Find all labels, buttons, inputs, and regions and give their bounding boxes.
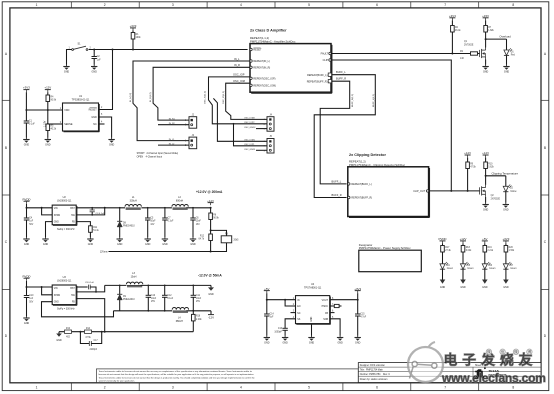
svg-text:EN: EN bbox=[297, 306, 301, 308]
svg-text:RESET: RESET bbox=[253, 49, 262, 52]
svg-text:1uF: 1uF bbox=[29, 221, 34, 223]
svg-text:1uF: 1uF bbox=[29, 298, 34, 300]
svg-text:GND: GND bbox=[482, 286, 488, 289]
ground (C5) bbox=[145, 237, 151, 246]
power -12V output bbox=[208, 311, 214, 320]
svg-text:CLIP_OUT: CLIP_OUT bbox=[413, 190, 425, 193]
wire OSC to J5 branch bbox=[234, 124, 268, 146]
node reset/pull-up bbox=[132, 49, 134, 51]
svg-text:BST: BST bbox=[70, 208, 75, 210]
svg-text:2: 2 bbox=[104, 3, 106, 7]
power +12V (LED column 2) bbox=[460, 237, 467, 244]
node divider/VDD bbox=[47, 109, 49, 111]
ground (comp left) bbox=[56, 332, 62, 342]
ground (LED D2) bbox=[503, 203, 509, 212]
svg-text:90.9k: 90.9k bbox=[51, 100, 57, 102]
svg-text:Clipping Temperature: Clipping Temperature bbox=[492, 171, 519, 175]
svg-text:GND: GND bbox=[56, 339, 62, 342]
ground (C16) bbox=[282, 336, 288, 345]
svg-text:0.1uF: 0.1uF bbox=[29, 124, 35, 126]
svg-text:4: 4 bbox=[240, 386, 242, 390]
svg-text:R13: R13 bbox=[66, 328, 71, 330]
svg-text:REPEAT(BUFF_L): REPEAT(BUFF_L) bbox=[351, 183, 371, 186]
resistor R5 40.2k bbox=[46, 124, 57, 138]
svg-text:Green: Green bbox=[447, 267, 454, 270]
power +3V3 rail (supervisor VDD) bbox=[23, 86, 30, 93]
resistor R10 5.62k bbox=[484, 158, 495, 176]
svg-text:SwFq = 330 kHz: SwFq = 330 kHz bbox=[57, 228, 75, 231]
svg-text:0.1uF: 0.1uF bbox=[168, 221, 174, 223]
power +5V (LDO input) bbox=[264, 287, 270, 293]
wire comp run bbox=[59, 331, 193, 333]
wire OSC second branch bbox=[213, 98, 267, 141]
svg-text:LM26003-Q1: LM26003-Q1 bbox=[57, 280, 72, 283]
svg-text:2200pF: 2200pF bbox=[90, 349, 98, 351]
svg-text:BUFF_L: BUFF_L bbox=[332, 180, 342, 184]
svg-text:IN_L(1,2): IN_L(1,2) bbox=[130, 93, 132, 102]
svg-text:5: 5 bbox=[308, 3, 310, 7]
resistor R7 1.82k bbox=[484, 20, 495, 39]
wire vin to U3 bbox=[27, 286, 53, 288]
svg-text:OSC_IO(1,2): OSC_IO(1,2) bbox=[205, 91, 207, 104]
ground (C1) bbox=[23, 138, 29, 147]
svg-text:PMP11754MainC - Amplifier.SchD: PMP11754MainC - Amplifier.SchDoc bbox=[250, 39, 296, 43]
svg-text:2x Clipping Detector: 2x Clipping Detector bbox=[349, 153, 386, 157]
svg-text:5: 5 bbox=[308, 386, 310, 390]
svg-text:0.1uF: 0.1uF bbox=[167, 298, 173, 300]
node FAULT/pull-up bbox=[451, 53, 453, 55]
svg-text:6: 6 bbox=[376, 386, 378, 390]
svg-text:4.7uF: 4.7uF bbox=[360, 317, 366, 319]
power +5V (LED column 3) bbox=[482, 237, 488, 244]
svg-text:OSC_GND1: OSC_GND1 bbox=[244, 149, 256, 151]
svg-text:BUFF_R(1,2): BUFF_R(1,2) bbox=[352, 94, 354, 107]
svg-text:47.5k: 47.5k bbox=[470, 166, 476, 168]
op-amp U2 LM26003-Q1 buck regulator bbox=[52, 196, 77, 231]
svg-text:+12V: +12V bbox=[207, 199, 214, 203]
wire divider mid bbox=[47, 110, 49, 124]
resistor R19 2.21k bbox=[483, 244, 494, 264]
resistor R14 47.5k (comp) bbox=[85, 328, 92, 339]
svg-text:7: 7 bbox=[444, 386, 446, 390]
capacitor C2 1uF bbox=[92, 50, 102, 65]
svg-text:4: 4 bbox=[240, 3, 242, 7]
op-amp U5 2x Class D Amplifier sheet symbol bbox=[250, 29, 332, 94]
node CLIP junction bbox=[450, 190, 452, 192]
svg-text:10uH: 10uH bbox=[131, 275, 137, 278]
connector J3 (2-pin input jumper, IN_L) bbox=[185, 135, 197, 149]
resistor R16 2.49k (fb top) bbox=[192, 311, 203, 332]
svg-text:REPEAT(OSC_IOP): REPEAT(OSC_IOP) bbox=[253, 78, 275, 81]
wire U3 SW bbox=[76, 285, 105, 292]
op-amp U6 2x Clipping Detector sheet symbol bbox=[348, 153, 430, 217]
svg-text:Drawn by: station unknown: Drawn by: station unknown bbox=[360, 378, 388, 381]
svg-text:微: 微 bbox=[487, 349, 491, 354]
wire OSC_IOM bbox=[226, 83, 267, 119]
svg-text:R14: R14 bbox=[86, 328, 91, 330]
wire U3 FB bbox=[76, 299, 105, 332]
LED D2 Yellow bbox=[503, 176, 517, 203]
LED D1 Red bbox=[504, 39, 516, 64]
ground (C15) bbox=[355, 336, 361, 345]
wire PVDD rail 2 bbox=[26, 281, 28, 296]
capacitor C14 1uF bbox=[264, 314, 274, 336]
wire U1 NC stub bbox=[99, 123, 105, 125]
resistor R6 90.9k (divider top) bbox=[209, 208, 220, 234]
ground (switch) bbox=[63, 65, 69, 74]
svg-text:+12.0V @ 200mA: +12.0V @ 200mA bbox=[196, 190, 223, 194]
power +12V (clip pull-up) bbox=[464, 151, 471, 158]
svg-text:IN: IN bbox=[297, 300, 300, 302]
LED D6 Green bbox=[482, 262, 496, 280]
wire switch left leg bbox=[67, 50, 72, 65]
ground (Q2) bbox=[482, 203, 488, 212]
resistor R20 1.50k bbox=[504, 244, 515, 264]
wire U2 SW bbox=[76, 208, 105, 215]
power +3V3 (LED column 4) bbox=[502, 237, 509, 244]
svg-text:BUFF_L(1,2): BUFF_L(1,2) bbox=[373, 94, 375, 107]
inductor L4 680nH bbox=[172, 308, 188, 323]
svg-text:NC: NC bbox=[93, 123, 97, 126]
svg-text:+3V3: +3V3 bbox=[23, 86, 30, 90]
svg-text:10uF: 10uF bbox=[151, 298, 157, 300]
svg-text:1: 1 bbox=[36, 386, 38, 390]
svg-text:VOUT: VOUT bbox=[322, 300, 329, 302]
wire vin to U2 bbox=[27, 207, 53, 209]
wire U4 PSNC stub bbox=[330, 304, 342, 307]
wire U2 EN bbox=[42, 208, 53, 215]
svg-text:FB: FB bbox=[325, 313, 328, 315]
svg-text:1uF: 1uF bbox=[97, 59, 102, 61]
wire BUFF_R bbox=[320, 81, 350, 184]
wire buck2 top rail bbox=[105, 284, 127, 286]
svg-text:1.50k: 1.50k bbox=[509, 250, 515, 252]
wire U3 BST bbox=[76, 286, 87, 288]
svg-text:SHDN: SHDN bbox=[54, 215, 61, 217]
svg-text:2N7002E: 2N7002E bbox=[491, 198, 501, 200]
wire Q1 source bbox=[485, 60, 487, 65]
resistor R1 100k bbox=[131, 31, 141, 50]
svg-text:Green: Green bbox=[510, 267, 517, 270]
svg-text:8: 8 bbox=[512, 386, 514, 390]
svg-text:OPEN 4-Channel Input: OPEN 4-Channel Input bbox=[137, 155, 163, 158]
svg-text:Designer: DCS unknown: Designer: DCS unknown bbox=[360, 364, 386, 367]
wire PVDD rail bbox=[26, 204, 28, 218]
svg-text:OSC_IO(1,2): OSC_IO(1,2) bbox=[223, 91, 225, 104]
inductor L2 600nH bbox=[172, 196, 188, 209]
svg-text:BUFF_R: BUFF_R bbox=[336, 77, 346, 81]
node Designator note bbox=[359, 243, 422, 272]
svg-text:REPEAT(IN_L): REPEAT(IN_L) bbox=[253, 60, 270, 63]
wire CLIP bbox=[331, 60, 451, 191]
svg-text:IN_L1: IN_L1 bbox=[169, 139, 175, 141]
svg-text:VIN: VIN bbox=[54, 288, 58, 290]
node clip pull-up bbox=[467, 190, 469, 192]
svg-text:+5V: +5V bbox=[264, 287, 269, 291]
resistor R17 27.4k bbox=[441, 244, 452, 264]
wire VDD net to divider and U1 bbox=[26, 109, 62, 111]
ground (C2) bbox=[91, 65, 97, 74]
node SW rail bbox=[104, 207, 106, 209]
wire drain node to LED bbox=[486, 38, 507, 40]
svg-text:Texas Instruments and/or its l: Texas Instruments and/or its licensors d… bbox=[99, 376, 256, 379]
svg-text:PMEG4010: PMEG4010 bbox=[123, 226, 135, 228]
svg-text:2.49k: 2.49k bbox=[196, 319, 202, 321]
wire drain bbox=[485, 39, 487, 47]
switch S1 bbox=[69, 43, 92, 51]
wire IN_R bbox=[153, 67, 250, 120]
capacitor C13 10uF 25V bbox=[146, 285, 157, 310]
wire LDO input rail bbox=[266, 293, 268, 314]
svg-text:1uF: 1uF bbox=[270, 317, 275, 319]
capacitor C6 10uF 16V bbox=[190, 208, 201, 237]
capacitor C3 0.1uF (bootstrap) bbox=[90, 208, 106, 215]
ground (D8) bbox=[117, 237, 123, 246]
wire BUFF_L bbox=[314, 75, 375, 198]
svg-text:Overload: Overload bbox=[499, 35, 511, 39]
svg-text:IN_R1: IN_R1 bbox=[169, 118, 176, 120]
capacitor C4 1uF 50V bbox=[24, 218, 34, 237]
svg-text:2x Class D Amplifier: 2x Class D Amplifier bbox=[250, 29, 287, 33]
wire U2 GND pin bbox=[46, 222, 53, 237]
diode D8 PMEG4010 (catch) bbox=[117, 208, 135, 237]
svg-text:FAULT: FAULT bbox=[321, 53, 329, 56]
capacitor C16 1000pF (soft-start) bbox=[274, 328, 287, 335]
power PVDD (buck2 input) bbox=[22, 274, 30, 280]
svg-text:www.elecfans.com: www.elecfans.com bbox=[441, 371, 546, 385]
wire J5 pin3 stub bbox=[256, 149, 267, 151]
svg-text:PMEG4010: PMEG4010 bbox=[123, 299, 135, 301]
svg-text:64.7k: 64.7k bbox=[198, 238, 204, 240]
node comp junction bbox=[79, 331, 81, 333]
resistor R4 90.9k bbox=[46, 92, 57, 110]
svg-text:TPS3803-01-Q1: TPS3803-01-Q1 bbox=[72, 99, 90, 102]
node reset/C2 bbox=[93, 49, 95, 51]
wire U4 FB stub bbox=[330, 312, 335, 314]
svg-text:OSC_IOM: OSC_IOM bbox=[233, 79, 245, 83]
capacitor C10 1uF 50V bbox=[24, 295, 34, 316]
LED D4 Green bbox=[440, 262, 454, 280]
svg-text:25V: 25V bbox=[196, 301, 201, 303]
ground (C4) bbox=[23, 237, 29, 246]
svg-text:2N7002E: 2N7002E bbox=[464, 44, 474, 46]
svg-text:5.62k: 5.62k bbox=[488, 166, 494, 168]
svg-text:BUFF_R: BUFF_R bbox=[332, 193, 342, 197]
svg-text:20k5: 20k5 bbox=[234, 240, 240, 242]
wire buck2 bottom rail (-12V) bbox=[114, 310, 173, 312]
ground (U1) bbox=[108, 138, 114, 147]
svg-text:46.4k: 46.4k bbox=[455, 30, 461, 32]
svg-text:IN_L: IN_L bbox=[234, 57, 240, 61]
wire U4 VOUT bbox=[330, 299, 358, 301]
connector J4 (3-pin OSC) bbox=[267, 114, 274, 131]
connector J2 (2-pin input jumper, IN_R) bbox=[185, 114, 197, 128]
svg-text:SS: SS bbox=[297, 319, 301, 321]
svg-text:PSNC: PSNC bbox=[322, 306, 329, 308]
svg-text:CLIP: CLIP bbox=[323, 59, 329, 62]
svg-text:1000pF: 1000pF bbox=[274, 331, 282, 333]
capacitor C15 4.7uF bbox=[355, 314, 367, 336]
svg-text:GND: GND bbox=[460, 286, 466, 289]
wire reset net main run bbox=[89, 49, 248, 51]
node sense bbox=[210, 251, 212, 253]
svg-text:-12V: -12V bbox=[208, 316, 214, 320]
svg-text:BST: BST bbox=[70, 288, 75, 290]
wire U4 SS bbox=[285, 319, 295, 329]
svg-text:GND: GND bbox=[311, 316, 313, 321]
wire Q2 source bbox=[485, 197, 487, 203]
transistor Q2 2N7002 bbox=[480, 185, 501, 201]
svg-text:10uF: 10uF bbox=[196, 221, 202, 223]
resistor R11 51.1k (FB) bbox=[89, 226, 100, 237]
wire SENSE to U1 bbox=[48, 123, 63, 125]
svg-text:GND: GND bbox=[54, 222, 59, 224]
wire U1 RESET up to reset net bbox=[99, 50, 113, 110]
ground (C7) bbox=[162, 237, 168, 246]
ground (C6) bbox=[190, 237, 196, 246]
svg-text:40.2k: 40.2k bbox=[51, 129, 57, 131]
svg-text:90.9k: 90.9k bbox=[213, 217, 219, 219]
wire U3 EN bbox=[42, 287, 53, 295]
ground (LED D1) bbox=[503, 65, 509, 74]
svg-text:VDD: VDD bbox=[64, 109, 69, 112]
node reset/U1 branch bbox=[112, 49, 114, 51]
power +12V (divider top) bbox=[44, 86, 51, 93]
svg-text:OSC_IOM1: OSC_IOM1 bbox=[244, 140, 256, 142]
power +3V3 (reset pull-up) bbox=[130, 24, 137, 31]
svg-text:SNB: SNB bbox=[323, 319, 328, 321]
svg-text:PVDD: PVDD bbox=[22, 197, 30, 201]
svg-text:+12V: +12V bbox=[464, 151, 471, 155]
power PVDD (buck1 input) bbox=[22, 197, 30, 203]
node clip drain/LED bbox=[485, 175, 487, 177]
svg-text:Title: PMP11754 Main: Title: PMP11754 Main bbox=[360, 369, 384, 372]
svg-text:+3V3: +3V3 bbox=[130, 24, 137, 28]
svg-text:2: 2 bbox=[104, 386, 106, 390]
svg-text:GND: GND bbox=[91, 116, 97, 119]
svg-text:GND: GND bbox=[208, 293, 214, 296]
svg-text:+15V: +15V bbox=[482, 14, 489, 18]
wire IN_L bbox=[133, 61, 250, 141]
resistor R12 64.7k (divider bottom) bbox=[198, 234, 212, 252]
node VDD junction bbox=[25, 109, 27, 111]
op-amp U1 TPS3803-01-Q1 supervisor bbox=[60, 95, 103, 132]
wire U3 GND pin return bbox=[42, 302, 114, 317]
wire U4 GND pad bbox=[311, 324, 313, 336]
svg-text:12Vsns: 12Vsns bbox=[100, 252, 109, 254]
ground (buck2 rail end) bbox=[208, 285, 214, 296]
wire J2 pin2 stub bbox=[158, 124, 189, 126]
svg-text:LM26003-Q1: LM26003-Q1 bbox=[57, 200, 72, 203]
svg-text:100k: 100k bbox=[136, 37, 142, 39]
wire feedback sense run bbox=[109, 251, 211, 253]
node EN jog 2 bbox=[41, 286, 43, 288]
ground (D5) bbox=[460, 280, 466, 290]
op-amp U4 TPS7A8001-Q1 LDO bbox=[293, 283, 334, 324]
LED D7 Green bbox=[503, 262, 517, 280]
diode D9 PMEG4010 bbox=[117, 285, 135, 310]
svg-text:R20: R20 bbox=[509, 247, 514, 249]
svg-text:SENSE: SENSE bbox=[64, 123, 73, 126]
svg-text:680nH: 680nH bbox=[176, 320, 183, 323]
svg-text:RESET: RESET bbox=[89, 109, 98, 112]
svg-text:Yellow: Yellow bbox=[510, 191, 517, 193]
svg-text:OSC_IOP2: OSC_IOP2 bbox=[244, 122, 255, 124]
capacitor C11 10uF 25V bbox=[191, 285, 202, 310]
svg-text:+3V3: +3V3 bbox=[502, 237, 509, 241]
wire to U4 IN bbox=[267, 299, 296, 301]
power +12V output bbox=[207, 199, 214, 205]
svg-text:GND: GND bbox=[440, 286, 446, 289]
wire LDO output rail bbox=[357, 293, 359, 314]
svg-text:330uH: 330uH bbox=[130, 199, 137, 202]
resistor R9 47.5k bbox=[466, 158, 477, 191]
wire U4 EN bbox=[285, 300, 295, 306]
svg-text:SHORT 2-Channel Input (Stere: SHORT 2-Channel Input (Stereo Mode) bbox=[137, 152, 179, 155]
svg-text:PVDD: PVDD bbox=[438, 237, 446, 241]
svg-text:REPEAT(BUFF_L): REPEAT(BUFF_L) bbox=[307, 74, 327, 77]
svg-text:FB: FB bbox=[72, 302, 75, 304]
svg-text:FB: FB bbox=[72, 222, 75, 224]
svg-text:1.82k: 1.82k bbox=[488, 30, 494, 32]
svg-text:OSC_GND2: OSC_GND2 bbox=[244, 127, 256, 129]
wire CLIP_OUT bbox=[429, 190, 480, 192]
svg-text:51.1k: 51.1k bbox=[93, 230, 99, 232]
svg-text:2.21k: 2.21k bbox=[488, 250, 494, 252]
svg-text:BUFF_L: BUFF_L bbox=[336, 70, 346, 74]
ground (R11) bbox=[87, 237, 93, 246]
svg-text:+3V3: +3V3 bbox=[354, 287, 361, 291]
power +12V (clip LED supply) bbox=[482, 151, 489, 158]
capacitor C12 0.1uF bbox=[162, 285, 174, 310]
svg-text:10uF: 10uF bbox=[196, 298, 202, 300]
power +15V (overload LED supply) bbox=[482, 14, 489, 21]
node drain/LED bbox=[485, 38, 487, 40]
svg-text:Green: Green bbox=[467, 267, 474, 270]
svg-text:1: 1 bbox=[36, 3, 38, 7]
svg-text:10uF: 10uF bbox=[150, 221, 156, 223]
svg-text:GND: GND bbox=[54, 302, 59, 304]
resistor R3 140 (gate series) bbox=[452, 51, 479, 60]
svg-text:7: 7 bbox=[444, 3, 446, 7]
wire clip node to LED bbox=[486, 175, 506, 177]
wire U2 BST bbox=[76, 207, 105, 209]
svg-text:Number: PMP11754 Rev: C: Number: PMP11754 Rev: C bbox=[360, 373, 391, 376]
svg-text:NC: NC bbox=[297, 313, 301, 315]
wire J3 pin2 stub bbox=[158, 144, 189, 146]
svg-text:PVDD: PVDD bbox=[22, 274, 30, 278]
capacitor C7 0.1uF bbox=[162, 208, 174, 237]
svg-text:47.5k: 47.5k bbox=[85, 337, 91, 339]
ground (C14) bbox=[264, 336, 270, 345]
svg-text:16V: 16V bbox=[150, 224, 155, 226]
transistor Q1 2N7002 bbox=[464, 41, 486, 59]
title block bbox=[358, 363, 541, 383]
power PVDD (LED column 1) bbox=[438, 237, 446, 244]
capacitor C17 2200pF (comp) bbox=[80, 332, 101, 351]
node divider mid bbox=[210, 229, 212, 231]
inductor L3 10uH bbox=[126, 272, 142, 287]
svg-text:+12V: +12V bbox=[482, 151, 489, 155]
node EN jog LDO bbox=[284, 299, 286, 301]
ground (SNB) bbox=[337, 336, 343, 345]
capacitor C5 10uF 16V bbox=[145, 208, 156, 237]
node buck1 vin bbox=[26, 207, 28, 209]
svg-text:IN_R: IN_R bbox=[234, 63, 240, 67]
inductor L1 330uH bbox=[125, 196, 141, 209]
wire U4 SNB to ground bbox=[330, 319, 340, 336]
svg-text:REPEAT(BUFF_R): REPEAT(BUFF_R) bbox=[351, 197, 372, 200]
